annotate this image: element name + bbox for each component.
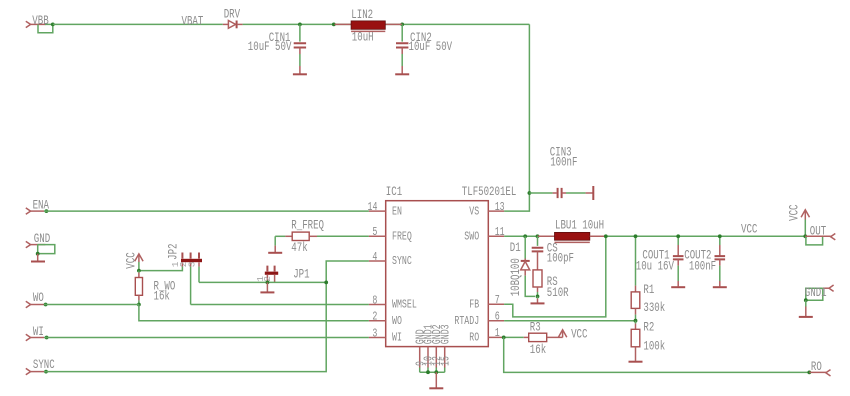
svg-text:R2: R2 xyxy=(643,320,654,335)
svg-text:10BQ100: 10BQ100 xyxy=(508,258,523,296)
svg-text:RO: RO xyxy=(469,331,479,345)
ground below COUT1 xyxy=(671,281,685,287)
svg-text:R1: R1 xyxy=(643,282,654,297)
pin WO 2 xyxy=(369,310,402,328)
svg-text:100k: 100k xyxy=(643,338,665,353)
svg-text:GND1: GND1 xyxy=(805,285,827,300)
svg-text:10u 16V: 10u 16V xyxy=(636,259,674,274)
connector SYNC xyxy=(26,357,55,375)
svg-text:VCC: VCC xyxy=(124,252,139,269)
svg-text:7: 7 xyxy=(495,293,500,307)
svg-text:FREQ: FREQ xyxy=(392,230,412,244)
connector GND1 xyxy=(804,285,834,302)
svg-text:LIN2: LIN2 xyxy=(351,7,373,22)
ground below R2 xyxy=(629,361,643,363)
svg-text:TLF50201EL: TLF50201EL xyxy=(462,184,517,199)
svg-text:IC1: IC1 xyxy=(386,184,403,199)
node CS top xyxy=(536,234,540,238)
svg-text:510R: 510R xyxy=(547,285,569,300)
ground below RS xyxy=(531,296,545,303)
diode DRV xyxy=(223,7,243,29)
wire JP1 row xyxy=(199,281,326,283)
ground below COUT2 xyxy=(713,281,727,287)
pin FREQ 5 xyxy=(369,225,412,243)
svg-text:16k: 16k xyxy=(530,342,547,357)
capacitor COUT1 xyxy=(636,236,684,281)
resistor R_FREQ xyxy=(275,218,324,256)
pin EN 14 xyxy=(368,200,402,218)
pin RTADJ 6 xyxy=(454,310,504,328)
node CIN3/VS junction xyxy=(528,191,532,195)
svg-text:16k: 16k xyxy=(154,289,171,304)
svg-text:4: 4 xyxy=(372,250,377,264)
svg-text:JP2: JP2 xyxy=(166,244,181,260)
svg-text:47k: 47k xyxy=(291,240,308,255)
wire WO to R_WO xyxy=(44,304,139,306)
capacitor CIN2 xyxy=(396,24,452,66)
connector ENA xyxy=(26,198,49,215)
node R_WO top xyxy=(137,269,141,273)
wire WI row xyxy=(44,337,369,339)
resistor R_WO xyxy=(135,271,175,305)
node RO junction xyxy=(502,336,506,340)
svg-text:EN: EN xyxy=(392,204,402,218)
connector WI xyxy=(26,324,49,341)
capacitor CS xyxy=(532,236,574,270)
wire JP2 pin3 down xyxy=(198,267,200,283)
resistor R3 xyxy=(504,319,562,357)
node D1 top xyxy=(523,234,527,238)
wire SYNC row and riser xyxy=(44,261,369,372)
svg-text:14: 14 xyxy=(368,200,378,214)
svg-text:VBAT: VBAT xyxy=(182,13,204,28)
wire GND bus below IC xyxy=(420,368,445,375)
capacitor CIN3 xyxy=(529,145,585,198)
ground below R_FREQ left xyxy=(268,236,282,253)
inductor LBU1 xyxy=(538,217,606,242)
svg-text:11: 11 xyxy=(495,225,505,239)
wire ENA to pin EN xyxy=(44,210,369,212)
wire JP2 pin2 down xyxy=(190,267,192,305)
resistor RS xyxy=(533,270,569,300)
svg-text:DRV: DRV xyxy=(224,7,241,22)
capacitor COUT2 xyxy=(684,236,725,281)
svg-text:WO: WO xyxy=(33,290,44,305)
ground right of CIN3 (rotated) xyxy=(586,186,594,200)
svg-text:LBU1 10uH: LBU1 10uH xyxy=(555,217,604,232)
svg-text:WO: WO xyxy=(392,314,402,328)
diode D1 xyxy=(508,236,535,296)
wire RO net xyxy=(504,337,810,372)
op-amp IC1 box xyxy=(386,184,517,346)
supply VCC arrow left xyxy=(124,252,144,270)
svg-text:13: 13 xyxy=(495,200,505,214)
node R1/R2 mid xyxy=(634,319,638,323)
ground below JP1 xyxy=(260,282,274,292)
wire top rail right of DRV xyxy=(243,23,530,25)
svg-text:FB: FB xyxy=(469,298,479,312)
ground below GND1 xyxy=(799,300,813,317)
pin RO 1 xyxy=(469,326,504,344)
pin FB 7 xyxy=(469,293,504,311)
svg-text:R_FREQ: R_FREQ xyxy=(291,218,324,233)
junction node mid xyxy=(332,23,336,27)
svg-text:VCC: VCC xyxy=(571,327,588,342)
svg-text:3: 3 xyxy=(186,261,197,267)
svg-text:3: 3 xyxy=(372,326,377,340)
node R1 top xyxy=(634,234,638,238)
ground below IC xyxy=(429,372,443,388)
svg-text:SYNC: SYNC xyxy=(33,357,55,372)
svg-text:SYNC: SYNC xyxy=(392,254,412,268)
svg-text:100nF: 100nF xyxy=(550,155,577,170)
ground below CIN2 xyxy=(395,66,409,74)
supply VCC arrow at R3 xyxy=(558,327,587,342)
svg-text:2: 2 xyxy=(372,310,377,324)
wire FREQ xyxy=(317,235,369,237)
svg-text:GND3: GND3 xyxy=(438,324,452,344)
svg-text:8: 8 xyxy=(372,293,377,307)
connector VBB xyxy=(26,13,55,33)
resistor R1 xyxy=(631,236,665,320)
wire top rail left of DRV xyxy=(53,23,223,25)
wire SWO row xyxy=(504,235,537,237)
svg-text:WMSEL: WMSEL xyxy=(392,298,417,312)
svg-text:VBB: VBB xyxy=(32,13,49,28)
svg-text:WI: WI xyxy=(33,324,44,339)
svg-text:100pF: 100pF xyxy=(547,250,574,265)
wire WO pin row xyxy=(139,305,369,321)
ground below GND connector xyxy=(31,254,45,262)
svg-text:VCC: VCC xyxy=(741,222,758,237)
pin WI 3 xyxy=(369,326,402,344)
node FB top xyxy=(604,234,608,238)
jumper JP2 xyxy=(166,244,202,268)
capacitor CIN1 xyxy=(248,24,306,66)
svg-text:100nF: 100nF xyxy=(689,259,716,274)
wire JP2 pin1 to VCC xyxy=(139,267,183,271)
pin VS 13 xyxy=(469,200,504,218)
svg-text:10uH: 10uH xyxy=(352,30,374,45)
svg-text:5: 5 xyxy=(372,225,377,239)
supply VCC arrow at OUT xyxy=(786,204,809,236)
pin WMSEL 8 xyxy=(369,293,417,311)
node COUT1 top xyxy=(676,234,680,238)
wire FB net xyxy=(504,236,606,317)
node RS bottom xyxy=(536,295,540,299)
svg-text:VS: VS xyxy=(469,204,479,218)
connector OUT xyxy=(803,223,835,245)
svg-text:R3: R3 xyxy=(530,319,541,334)
connector RO xyxy=(807,359,830,376)
svg-text:WI: WI xyxy=(392,331,402,345)
junction node VBAT/CIN1 xyxy=(298,23,302,27)
wire RTADJ net xyxy=(504,320,635,322)
svg-text:GND: GND xyxy=(34,231,51,246)
node R_WO bottom xyxy=(137,303,141,307)
wire VCC rail xyxy=(606,235,806,237)
ground below CIN1 xyxy=(293,66,307,74)
pin SWO 11 xyxy=(464,225,504,243)
svg-text:SWO: SWO xyxy=(464,230,479,244)
connector GND xyxy=(26,231,55,256)
svg-text:330k: 330k xyxy=(643,300,665,315)
wire JP2 pin2 to WMSEL xyxy=(191,304,369,306)
svg-text:D1: D1 xyxy=(510,240,521,255)
svg-text:1: 1 xyxy=(495,326,500,340)
pin SYNC 4 xyxy=(369,250,412,268)
svg-text:10uF 50V: 10uF 50V xyxy=(248,39,292,54)
node SYNC/JP1 row xyxy=(324,281,328,285)
svg-text:RTADJ: RTADJ xyxy=(454,314,479,328)
svg-text:10uF 50V: 10uF 50V xyxy=(409,39,453,54)
svg-text:OUT: OUT xyxy=(810,223,827,238)
svg-text:JP1: JP1 xyxy=(293,267,310,282)
junction node LIN2/CIN2 xyxy=(400,23,404,27)
svg-text:15: 15 xyxy=(438,356,452,366)
node COUT2 top xyxy=(718,234,722,238)
svg-text:RO: RO xyxy=(811,359,822,374)
inductor LIN2 xyxy=(335,7,403,45)
jumper JP1 xyxy=(255,266,310,283)
svg-text:6: 6 xyxy=(495,310,500,324)
node JP1 pin1 xyxy=(266,281,270,285)
resistor R2 xyxy=(631,320,665,361)
svg-text:VCC: VCC xyxy=(786,204,801,221)
wire VS vertical xyxy=(504,24,529,211)
connector WO xyxy=(26,290,48,308)
pins GND GND1 GND2 GND3 bottom xyxy=(413,324,452,367)
